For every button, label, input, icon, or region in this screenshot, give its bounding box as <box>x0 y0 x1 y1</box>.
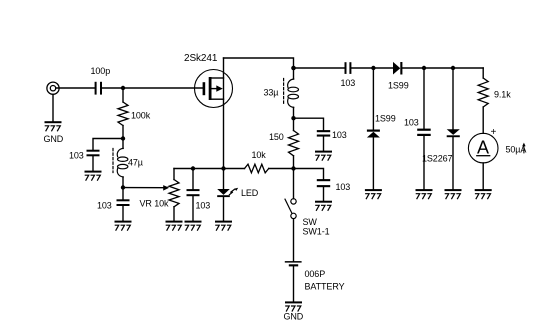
svg-text:103: 103 <box>332 130 347 140</box>
ground (1S2267) <box>445 189 462 199</box>
battery 006P <box>285 261 302 301</box>
wire node to C 103 (drain bypass) <box>294 118 324 130</box>
svg-text:1S99: 1S99 <box>375 113 396 123</box>
input terminal J1 <box>47 82 59 94</box>
wire drain top rail <box>224 58 294 68</box>
wire junction left to C 103 <box>93 139 123 150</box>
svg-text:A: A <box>477 138 489 158</box>
ground (drain bypass cap) <box>315 151 332 161</box>
node below 33µ <box>291 116 295 120</box>
diode 1S2267 <box>447 68 460 189</box>
svg-text:SW: SW <box>303 217 318 227</box>
ground (source bypass cap) <box>185 221 202 231</box>
inductor 47µ <box>117 139 128 188</box>
node battery rail <box>291 166 295 170</box>
svg-text:VR 10k: VR 10k <box>140 198 170 208</box>
node source / LED <box>221 166 225 170</box>
svg-text:100p: 100p <box>91 66 111 76</box>
wire diode to 9.1k corner <box>402 67 483 69</box>
node drain rail <box>291 66 296 71</box>
potentiometer VR 10k <box>169 169 179 221</box>
svg-text:10k: 10k <box>252 150 267 160</box>
inductor 33µ <box>288 68 299 118</box>
core line 33µ <box>283 79 285 105</box>
node gate junction <box>121 86 125 90</box>
capacitor 100p <box>95 82 102 95</box>
ground (1S99 shunt) <box>365 189 382 199</box>
node filter cap <box>422 66 426 70</box>
svg-text:100k: 100k <box>131 110 151 120</box>
svg-text:006P: 006P <box>305 269 326 279</box>
svg-text:103: 103 <box>336 182 351 192</box>
svg-text:LED: LED <box>241 188 259 198</box>
LED emission arrow <box>229 188 238 195</box>
svg-text:2Sk241: 2Sk241 <box>184 53 218 64</box>
svg-text:103: 103 <box>341 78 356 88</box>
svg-text:SW1-1: SW1-1 <box>303 226 330 236</box>
svg-text:150: 150 <box>269 132 284 142</box>
svg-text:103: 103 <box>69 150 84 160</box>
node detector input <box>371 66 375 70</box>
wire rail to C 103 series <box>294 67 345 69</box>
svg-text:GND: GND <box>284 311 304 321</box>
capacitor 103 (meter filter) <box>417 68 431 189</box>
wire terminal down to ground <box>52 95 54 122</box>
svg-text:BATTERY: BATTERY <box>305 281 345 291</box>
core line 47µ <box>112 149 114 173</box>
node below 47µ <box>121 185 125 189</box>
capacitor 103 (series coupling) <box>345 62 352 74</box>
svg-text:103: 103 <box>196 200 211 210</box>
resistor 150 <box>289 118 299 168</box>
diode 1S99 (series) <box>393 62 402 75</box>
ground (meter) <box>475 189 492 199</box>
wire C 103 to node <box>351 67 393 69</box>
wire terminal to C 100p <box>56 87 95 89</box>
capacitor 103 (drain bypass) <box>317 130 330 151</box>
wire 10k to battery node <box>269 168 294 170</box>
ground (left bypass cap) <box>85 171 102 181</box>
svg-text:1S99: 1S99 <box>388 80 409 90</box>
ground (input) <box>45 121 62 131</box>
meter needle mark <box>522 143 525 153</box>
meter M1 50µA <box>468 133 498 189</box>
svg-text:GND: GND <box>44 134 64 144</box>
capacitor 103 (below 47µ) <box>117 188 130 221</box>
node source rail at 103 <box>191 166 195 170</box>
ground (meter filter cap) <box>416 189 433 199</box>
wire C 100p to gate <box>102 87 202 89</box>
ground (VR 10k) <box>166 221 183 231</box>
svg-text:9.1k: 9.1k <box>494 89 511 99</box>
capacitor 103 (left bypass) <box>87 150 100 171</box>
svg-text:103: 103 <box>404 117 419 127</box>
ground (supply bypass cap) <box>315 201 332 211</box>
resistor 9.1k <box>478 68 488 133</box>
LED D1 <box>217 169 230 221</box>
capacitor 103 (supply bypass) <box>317 179 330 201</box>
ground (LED) <box>215 221 232 231</box>
node below 100k <box>121 136 125 140</box>
resistor 10k (series) <box>245 164 269 173</box>
resistor 100k <box>118 88 128 139</box>
ground (battery) <box>285 301 302 311</box>
svg-text:1S2267: 1S2267 <box>422 153 453 163</box>
svg-text:+: + <box>491 127 497 138</box>
capacitor 103 (source bypass) <box>187 169 200 221</box>
transistor 2SK241 Q1 <box>195 58 233 169</box>
wire wiper arrow to VR 10k <box>123 185 169 191</box>
ground (103 below 47µ) <box>115 221 132 231</box>
switch SW1-1 <box>285 169 296 262</box>
diode 1S99 (shunt) <box>367 68 380 189</box>
svg-text:33µ: 33µ <box>264 87 279 97</box>
wire source rail <box>174 168 245 170</box>
svg-text:47µ: 47µ <box>128 157 143 167</box>
node 1S2267 <box>451 66 455 70</box>
wire node to C 103 (supply bypass) <box>294 169 324 180</box>
svg-text:103: 103 <box>97 200 112 210</box>
